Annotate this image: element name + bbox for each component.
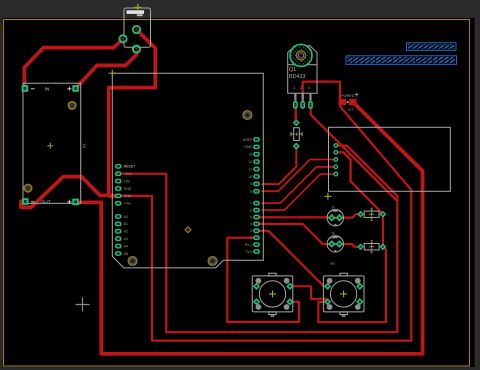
pad IN- — [22, 85, 29, 92]
resistor R1 body — [364, 211, 379, 217]
arduino mount hole bottom-left — [128, 257, 137, 266]
svg-text:9: 9 — [250, 182, 252, 186]
svg-text:+3V3: +3V3 — [124, 172, 132, 176]
svg-text:BD433: BD433 — [289, 74, 305, 80]
svg-text:4: 4 — [250, 222, 252, 226]
button S1 pads — [253, 283, 294, 306]
diode D1 pads — [293, 119, 300, 150]
fuse pad A — [133, 26, 140, 33]
svg-text:A3: A3 — [124, 237, 128, 241]
wire Q1 pin3 diagonal — [311, 105, 398, 201]
wire pad3 to button2 top-left — [260, 231, 328, 286]
wire GND net: fuse pad A to GND pin, thick — [109, 30, 156, 196]
via diamond — [185, 227, 191, 233]
svg-text:11: 11 — [248, 167, 252, 171]
fuse F1 outline — [124, 8, 151, 47]
resistor R2 body — [364, 244, 379, 250]
LED D7 smd pads — [339, 99, 357, 105]
via module bottom — [24, 185, 31, 192]
svg-text:5: 5 — [250, 215, 252, 219]
origin cross bottom-left — [76, 298, 90, 312]
fuse pad C — [133, 46, 140, 53]
diode D1 body — [294, 128, 300, 141]
via module top — [68, 102, 75, 109]
svg-text:D7: D7 — [349, 107, 355, 112]
pad OUT- — [22, 198, 29, 205]
origin cross resistor R1 — [369, 212, 374, 217]
svg-text:IN: IN — [45, 86, 50, 92]
arduino mount hole top-right — [243, 111, 252, 120]
svg-text:10: 10 — [248, 175, 252, 179]
wire pad4 to pot2 — [260, 224, 332, 244]
svg-text:Q1: Q1 — [289, 67, 296, 73]
wire GND net: OUT- branch thick — [21, 177, 109, 208]
svg-text:Tx 0: Tx 0 — [245, 250, 252, 254]
button S2 corner legs — [327, 278, 361, 310]
wire Q1 pin2 to LED left pad and down to GND bus — [120, 82, 411, 341]
module U2 smd dots — [334, 144, 338, 176]
origin cross button S2 — [340, 290, 347, 297]
svg-text:R9: R9 — [331, 262, 335, 266]
origin cross module U2 — [324, 193, 331, 200]
wire IN- net thick — [24, 39, 123, 89]
wire pad2 to button1 bottom-right — [227, 238, 299, 322]
svg-text:A5: A5 — [124, 252, 128, 256]
transistor Q1 pads — [293, 101, 313, 109]
origin cross fuse — [134, 4, 141, 11]
transistor Q1 mounting hole with hatch — [290, 44, 312, 66]
button S1 outline — [252, 276, 293, 312]
fuse pad B — [119, 35, 126, 42]
wire pad5 to pot1 — [260, 216, 332, 218]
svg-text:3: 3 — [250, 229, 252, 233]
transistor Q1 body — [288, 46, 317, 94]
arduino right header pads — [253, 137, 260, 254]
pad IN+ — [72, 85, 79, 92]
bottom copper text block 2 — [346, 56, 457, 65]
wire +3V3 to module dot1 — [120, 146, 397, 333]
bottom copper text block 1 — [407, 43, 457, 51]
arduino left header pads — [115, 164, 122, 256]
button S1 bottom mark — [271, 315, 275, 317]
module U2 outline — [329, 127, 451, 191]
pot R8 pads — [328, 214, 343, 222]
svg-text:1k: 1k — [332, 205, 336, 209]
pot R9 pads — [328, 240, 343, 248]
wire module dot3 to pad 8 — [262, 160, 337, 192]
arduino left header labels — [124, 165, 135, 256]
origin cross diode — [295, 133, 298, 136]
wire pot1 to resistor1 — [339, 214, 360, 217]
wire button1 to button2 — [290, 286, 328, 301]
power module outline — [23, 83, 81, 203]
svg-text:7: 7 — [250, 202, 252, 206]
origin cross arduino — [109, 70, 116, 77]
svg-text:13: 13 — [248, 153, 252, 157]
resistor R1 pads — [357, 211, 386, 218]
button S2 bottom mark — [342, 315, 346, 317]
arduino right header labels — [243, 138, 253, 254]
svg-text:+Vin: +Vin — [124, 202, 131, 206]
svg-text:PWRED: PWRED — [341, 94, 355, 98]
svg-text:A4: A4 — [124, 244, 128, 248]
svg-text:AREF: AREF — [243, 138, 252, 142]
svg-text:8: 8 — [250, 190, 252, 194]
wire pot2 to resistor2 — [339, 244, 360, 247]
svg-text:6: 6 — [250, 208, 252, 212]
svg-text:OUT: OUT — [41, 200, 51, 206]
svg-text:1k: 1k — [332, 232, 336, 236]
svg-text:A2: A2 — [124, 230, 128, 234]
svg-text:GND: GND — [244, 145, 252, 149]
arduino outline — [112, 73, 263, 268]
svg-text:12: 12 — [248, 160, 252, 164]
svg-text:RESET: RESET — [124, 165, 135, 169]
svg-text:A0: A0 — [124, 215, 128, 219]
wire module dot2 to resistors to button2 — [318, 152, 386, 322]
svg-text:+5V: +5V — [124, 179, 131, 183]
transistor Q1 legs — [295, 93, 310, 100]
fuse F1 body bar — [127, 10, 145, 14]
svg-text:GND: GND — [124, 187, 132, 191]
origin cross resistor R2 — [369, 244, 374, 249]
origin cross button S1 — [269, 290, 276, 297]
wire IN+ net thick — [76, 49, 137, 88]
origin cross power module — [47, 143, 53, 149]
wire power loop OUT+ to LED D7, thick — [76, 103, 423, 354]
svg-text:Rx 1: Rx 1 — [245, 243, 252, 247]
svg-text:e1: e1 — [82, 142, 87, 148]
svg-text:R8: R8 — [331, 236, 335, 240]
button S2 outline — [323, 276, 364, 312]
resistor R2 pads — [357, 243, 386, 250]
button S2 pads — [324, 283, 364, 306]
pot R8 outline — [327, 210, 343, 226]
pad OUT+ — [72, 199, 79, 206]
wire module dot5 to pad 6 — [262, 174, 337, 210]
wire Q1 pin1 to diode — [295, 105, 297, 123]
wire module dot4 to pad 7 — [262, 167, 337, 203]
wire diode to pad 9 — [262, 146, 296, 184]
button S1 corner legs — [256, 278, 290, 310]
svg-text:GND: GND — [124, 194, 132, 198]
pot R9 outline — [327, 236, 343, 252]
arduino mount hole bottom-right — [208, 257, 217, 266]
svg-text:A1: A1 — [124, 222, 128, 226]
svg-text:2: 2 — [250, 236, 252, 240]
